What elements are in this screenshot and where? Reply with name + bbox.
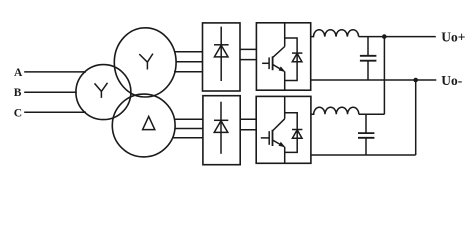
IGBT Q2 emitter arrow [279,142,286,147]
transformer T1 secondary winding 2 circle (delta) [112,94,175,157]
rectifier block REC2 box [203,96,240,165]
IGBT Q2 collector lead [284,96,286,118]
secondary 2 delta symbol [143,116,155,129]
svg-text:Uo+: Uo+ [441,29,465,44]
wire phase A [24,71,86,73]
wire row2 return rail [311,154,416,156]
IGBT Q2 emitter lead [284,147,286,164]
freewheel diode D4 branch wire [285,113,298,153]
wire secondary2 phase b [175,128,203,130]
wire L1 to Uo+ terminal [359,36,436,38]
IGBT Q1 emitter lead [284,71,286,90]
rectifier REC2 diode D3 [214,102,228,154]
wire secondary2 phase a [174,118,203,120]
IGBT Q1 collector lead [284,23,286,47]
freewheel diode D2 symbol [292,53,302,62]
transformer T1 primary winding circle [76,65,131,120]
wire secondary1 phase a [174,51,203,53]
rectifier block REC1 box [203,23,241,91]
capacitor C2 [358,114,374,155]
wire DC link 1 plus [240,48,256,50]
rectifier REC1 diode D1 [214,27,229,81]
svg-text:C: C [14,108,22,120]
chopper block U2 box [256,96,311,163]
IGBT Q1 symbol [262,47,285,72]
transformer T1 secondary winding 1 circle (Y) [114,28,176,97]
capacitor C1 [360,37,377,80]
wire secondary1 phase b [176,61,203,63]
wire riser L2 to node plus [383,37,385,115]
wire L2 node to riser [359,113,385,115]
wire DC link 2 minus [240,129,256,131]
IGBT Q2 symbol [261,119,285,147]
freewheel diode D4 symbol [292,130,302,139]
wire row1 return to Uo- terminal [311,79,437,81]
svg-text:A: A [14,67,23,79]
node dot output minus [413,78,418,83]
wire riser rail to node minus [415,80,417,155]
wire phase C [24,111,86,113]
wire DC link 2 plus [240,118,256,120]
chopper block U1 box [256,23,310,90]
svg-text:Uo-: Uo- [441,73,462,88]
freewheel diode D2 branch wire [285,38,297,81]
wire phase B [24,91,77,93]
IGBT Q1 emitter arrow [279,66,286,71]
node dot output plus [382,34,387,39]
wire secondary2 phase c [173,137,203,139]
svg-text:B: B [14,87,22,99]
primary Y symbol [95,83,108,98]
wire DC link 1 minus [240,59,256,61]
secondary 1 Y symbol [139,54,153,70]
wire secondary1 phase c [174,71,203,73]
inductor L1 [311,30,359,37]
inductor L2 [311,107,359,114]
